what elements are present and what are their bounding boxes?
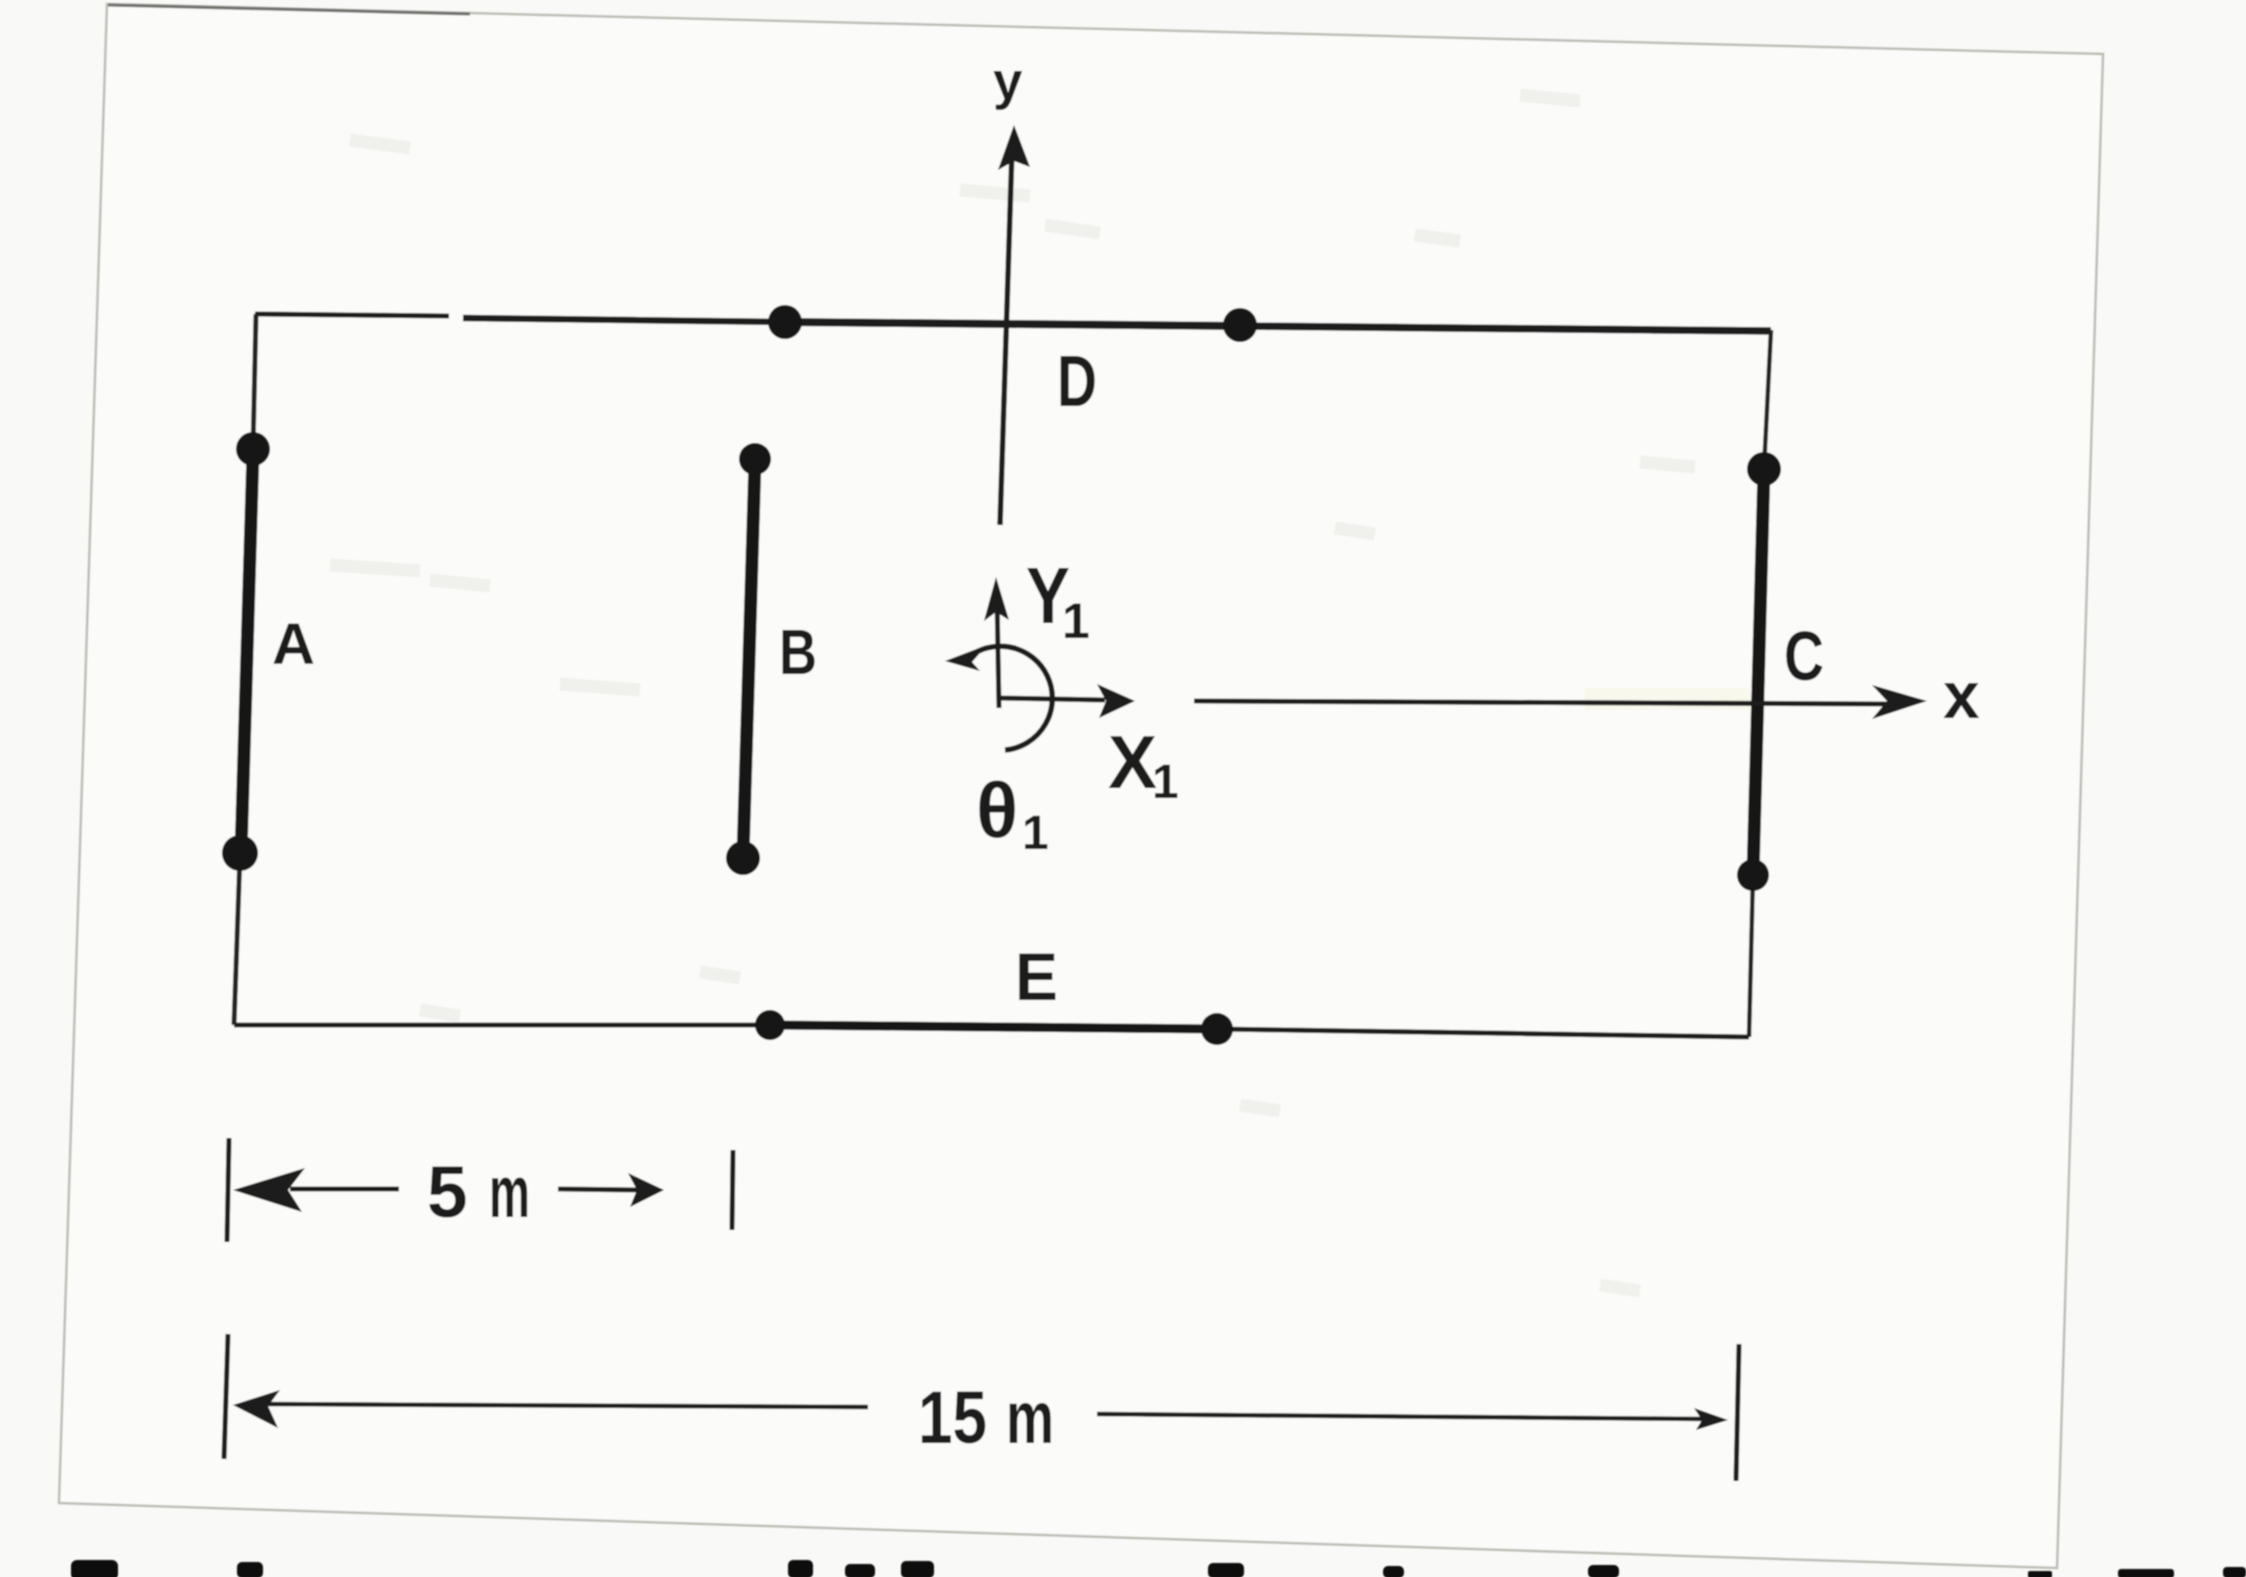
wall A top node dot xyxy=(236,432,270,466)
wall B thick segment xyxy=(743,461,755,856)
X1 axis arrowhead xyxy=(1097,684,1135,718)
svg-text:X: X xyxy=(1108,720,1157,804)
wall C bottom node dot xyxy=(1737,859,1769,891)
wall C top node dot xyxy=(1747,452,1781,486)
page top edge dark segment xyxy=(108,5,470,14)
svg-text:C: C xyxy=(1784,617,1824,695)
cropped caption letter tops xyxy=(71,1560,2246,1577)
wall A thick segment xyxy=(241,452,253,853)
wall B top node dot xyxy=(739,443,771,475)
wall A bottom node dot xyxy=(222,835,258,871)
x axis line xyxy=(1194,701,1890,704)
scan smudges xyxy=(330,95,1695,1291)
x axis arrowhead xyxy=(1872,685,1927,719)
theta1 rotation arc xyxy=(963,646,1052,750)
floor rectangle left edge lower thin segment xyxy=(234,855,240,1025)
svg-text:x: x xyxy=(1943,658,1980,732)
pale tint on x axis xyxy=(1585,688,1750,710)
svg-text:E: E xyxy=(1015,939,1058,1015)
floor rectangle top edge right segment xyxy=(1240,326,1771,331)
wall E left node dot xyxy=(755,1010,785,1040)
floor rectangle top edge mid segment xyxy=(463,318,785,322)
svg-text:A: A xyxy=(272,612,315,677)
5m dimension left arrowhead xyxy=(233,1168,305,1212)
X1 axis line xyxy=(997,698,1105,700)
15m dimension right tick xyxy=(1736,1344,1739,1481)
5m dimension left line xyxy=(290,1187,399,1192)
svg-text:y: y xyxy=(993,52,1023,111)
Y1 axis line xyxy=(997,598,999,708)
y axis line xyxy=(1000,150,1012,525)
svg-text:1: 1 xyxy=(1062,593,1090,649)
5m dimension right tick xyxy=(732,1150,733,1230)
15m dimension right line xyxy=(1097,1414,1706,1419)
15m dimension left arrowhead xyxy=(233,1390,280,1428)
svg-text:B: B xyxy=(779,616,817,688)
wall E right node dot xyxy=(1201,1013,1233,1045)
floor rectangle right edge upper thin segment xyxy=(1764,330,1771,469)
wall E thick segment xyxy=(770,1025,1217,1029)
floor rectangle bottom edge right segment xyxy=(1217,1029,1749,1037)
svg-text:m: m xyxy=(489,1152,530,1233)
y axis arrowhead xyxy=(998,125,1030,170)
15m dimension left line xyxy=(260,1404,868,1407)
svg-text:D: D xyxy=(1057,342,1097,422)
Y1 axis arrowhead xyxy=(984,577,1009,621)
15m dimension right arrowhead xyxy=(1694,1408,1728,1430)
5m dimension left tick xyxy=(227,1138,229,1242)
floor rectangle left edge upper thin segment xyxy=(253,314,256,449)
floor rectangle bottom edge left segment xyxy=(234,1023,770,1028)
svg-text:m: m xyxy=(1006,1376,1054,1459)
svg-text:1: 1 xyxy=(1152,756,1179,809)
floor rectangle top edge left segment xyxy=(255,314,449,316)
theta1 arc arrowhead xyxy=(945,645,987,671)
wall D thick segment xyxy=(785,322,1240,326)
wall D left node dot xyxy=(768,305,802,339)
floor rectangle right edge lower thin segment xyxy=(1749,875,1753,1037)
svg-text:15: 15 xyxy=(918,1376,987,1459)
wall D right node dot xyxy=(1223,308,1257,342)
wall B bottom node dot xyxy=(726,841,760,875)
wall C thick segment xyxy=(1753,469,1764,875)
5m dimension right line xyxy=(558,1189,640,1190)
svg-text:1: 1 xyxy=(1022,807,1049,860)
5m dimension right arrowhead xyxy=(628,1173,664,1207)
svg-text:θ: θ xyxy=(976,766,1018,854)
15m dimension left tick xyxy=(224,1334,228,1459)
svg-text:5: 5 xyxy=(427,1152,468,1233)
